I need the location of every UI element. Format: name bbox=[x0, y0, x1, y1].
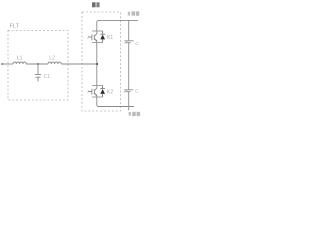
diode D1 bbox=[100, 31, 105, 43]
wire input bbox=[1, 63, 13, 65]
inverter dashed box bbox=[82, 12, 121, 111]
transistor K2 top bar bbox=[92, 85, 103, 87]
wire dc bus vertical top bbox=[128, 20, 130, 40]
svg-text:C1: C1 bbox=[44, 74, 51, 80]
label dc bus negative bbox=[129, 112, 141, 116]
svg-text:J: J bbox=[87, 89, 89, 94]
transistor K1 igbt bbox=[89, 31, 97, 43]
wire C1 drop bbox=[37, 64, 39, 74]
svg-text:J: J bbox=[87, 34, 89, 39]
wire L1 to L2 bbox=[26, 63, 48, 65]
wire dc bus vertical bottom bbox=[128, 92, 130, 110]
svg-text:K2: K2 bbox=[107, 90, 113, 96]
node bridge midpoint bbox=[96, 63, 98, 65]
transistor K2 bottom bar bbox=[92, 96, 103, 98]
svg-text:L1: L1 bbox=[17, 55, 23, 61]
svg-text:FLT: FLT bbox=[10, 24, 20, 30]
capacitor C1 bbox=[35, 75, 41, 82]
diode D2 bbox=[100, 86, 105, 98]
svg-text:L2: L2 bbox=[49, 55, 55, 61]
transistor K2 igbt bbox=[89, 86, 97, 98]
capacitor C2 bbox=[125, 41, 134, 43]
wire L2 to bridge midpoint bbox=[61, 63, 97, 65]
node C1 tap bbox=[37, 63, 39, 65]
label dc bus positive bbox=[128, 11, 139, 15]
inverter box title bbox=[92, 2, 100, 7]
svg-text:K1: K1 bbox=[107, 35, 113, 41]
filter dashed box bbox=[8, 31, 68, 101]
wire K2 to bottom rail bbox=[97, 97, 134, 107]
inductor L1 bbox=[13, 62, 26, 64]
svg-text:C: C bbox=[135, 89, 139, 95]
transistor K1 top bar bbox=[92, 30, 103, 32]
capacitor C3 bbox=[124, 90, 133, 92]
inductor L2 bbox=[48, 62, 61, 64]
wire midpoint to K2 bbox=[96, 43, 98, 86]
input terminal bbox=[1, 63, 4, 65]
wire top rail bbox=[97, 20, 138, 31]
transistor K1 bottom bar bbox=[92, 42, 103, 44]
svg-text:C: C bbox=[135, 41, 139, 47]
wire dc bus vertical mid bbox=[128, 43, 130, 90]
